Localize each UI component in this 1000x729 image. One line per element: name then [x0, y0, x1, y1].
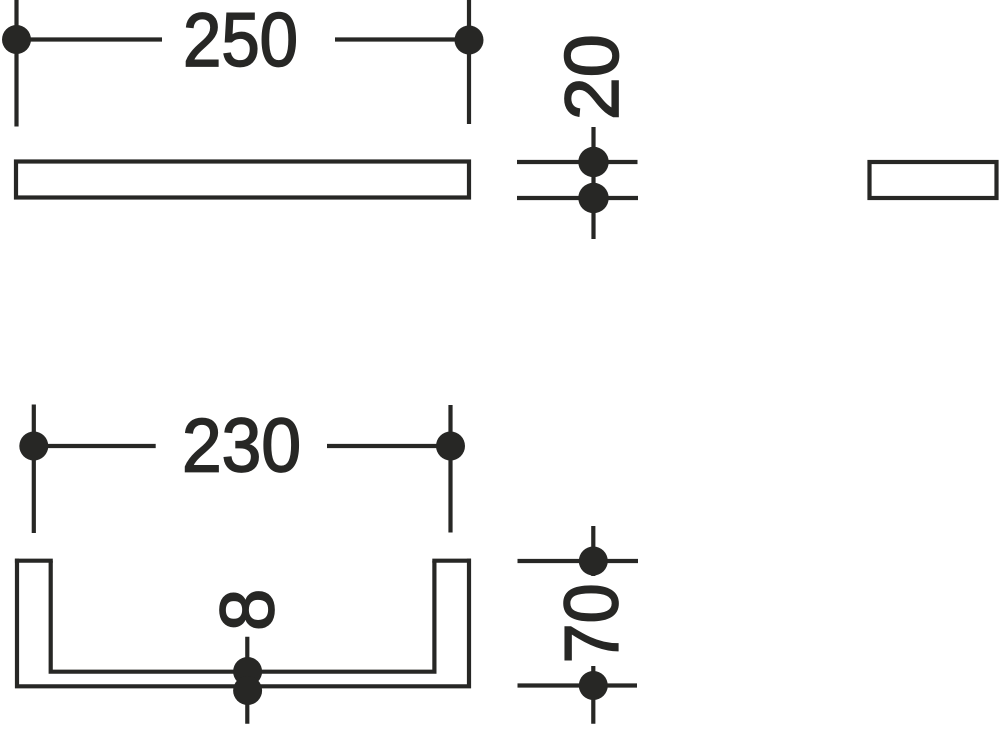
dimension 70 dot top: [579, 547, 608, 576]
dimension 250 dot left: [2, 25, 31, 54]
dimension 20 dot top: [578, 147, 608, 177]
svg-text:230: 230: [182, 404, 301, 489]
dimension 70 vertical line upper segment: [591, 526, 595, 576]
dimension 250 line left segment: [17, 37, 163, 41]
bar side view rectangle: [870, 162, 997, 198]
dimension 70 vertical line lower segment: [591, 666, 595, 724]
dimension 8 vertical line: [245, 637, 249, 724]
dimension 230 line left segment: [34, 444, 156, 448]
dimension 250 extension line left: [14, 0, 18, 127]
svg-text:70: 70: [549, 583, 634, 663]
dimension 230 line right segment: [327, 444, 451, 448]
dimension 20 tick line top: [517, 160, 638, 164]
label 70 (rotated): [549, 583, 634, 663]
dimension 230 dot left: [19, 432, 48, 461]
label 20 (rotated): [550, 34, 635, 120]
U-channel outer contour: [17, 561, 469, 687]
U-channel left arm top edge: [15, 559, 53, 563]
dimension 250 line right segment: [335, 37, 469, 41]
dimension 230 extension line left: [32, 405, 36, 534]
bar front view (250x20 profile): [16, 162, 469, 198]
dimension 230 extension line right: [448, 405, 452, 533]
dimension 70 tick line top: [518, 559, 639, 563]
label 8 (rotated): [205, 589, 290, 631]
U-channel right arm top edge: [432, 559, 471, 563]
dimension 250 extension line right: [467, 0, 471, 124]
dimension 250 dot right: [455, 26, 484, 55]
dimension 70 tick line bottom: [518, 683, 638, 687]
dimension 8 dot lower: [233, 676, 262, 705]
dimension 20 dot bottom: [578, 183, 608, 213]
svg-text:20: 20: [550, 34, 635, 120]
dimension 70 dot bottom: [579, 671, 608, 700]
dimension 230 dot right: [436, 432, 465, 461]
dimension 20 vertical line: [591, 127, 595, 239]
svg-text:8: 8: [205, 589, 290, 631]
dimension 20 tick line bottom: [517, 196, 638, 200]
dimension 8 dot upper: [233, 657, 262, 686]
svg-text:250: 250: [183, 0, 298, 83]
U-channel inner contour: [51, 561, 435, 672]
